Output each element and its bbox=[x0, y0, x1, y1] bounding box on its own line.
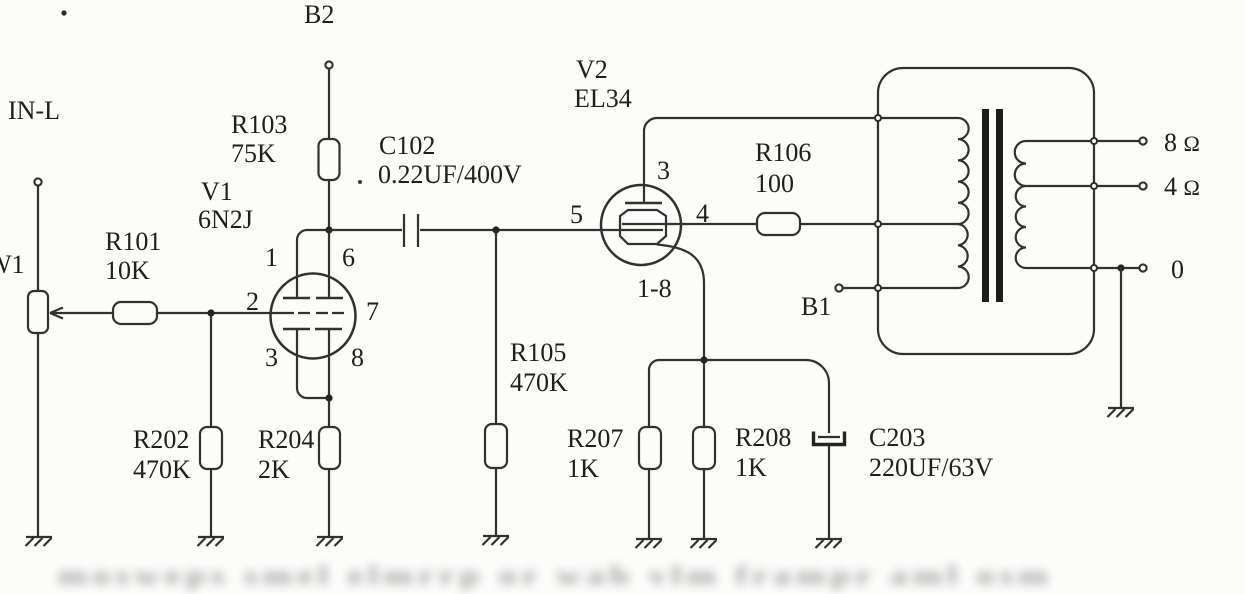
transformer secondary winding bbox=[1015, 141, 1026, 268]
ground (R204 bottom) bbox=[317, 537, 344, 546]
svg-text:0.22UF/400V: 0.22UF/400V bbox=[378, 160, 522, 189]
scan speck top left bbox=[61, 10, 66, 15]
svg-text:470K: 470K bbox=[133, 455, 191, 484]
wire R106 to transformer ultralinear tap bbox=[800, 223, 958, 225]
node A (plate / R103 / C102 junction) bbox=[325, 226, 332, 233]
svg-text:0: 0 bbox=[1171, 255, 1184, 284]
resistor R204 bbox=[319, 427, 340, 469]
wire secondary 8 ohm tap bbox=[1026, 140, 1139, 142]
wire V1 right cathode down through R204 to ground bbox=[328, 329, 330, 537]
ground (R208 bottom) bbox=[691, 539, 718, 548]
svg-text:7: 7 bbox=[366, 297, 379, 326]
node cathode junction pins 3 and 8 bbox=[325, 394, 332, 401]
svg-text:R101: R101 bbox=[105, 227, 161, 256]
junction marker secondary 8 ohm bbox=[1091, 138, 1097, 144]
capacitor C203 cup plate bbox=[814, 432, 845, 445]
wire node to R202 to ground bbox=[210, 313, 212, 537]
junction marker primary bottom bbox=[875, 285, 881, 291]
svg-text:B2: B2 bbox=[304, 0, 334, 29]
svg-text:1-8: 1-8 bbox=[637, 274, 672, 303]
svg-text:3: 3 bbox=[657, 156, 670, 185]
scan speck near C102 bbox=[358, 180, 362, 184]
wire potentiometer bottom to ground bbox=[37, 333, 39, 537]
resistor R106 bbox=[757, 213, 800, 235]
V2 screen grid line to pin 4 bbox=[622, 223, 757, 225]
svg-text:1: 1 bbox=[265, 243, 278, 272]
wire node A to C102 bbox=[329, 229, 402, 231]
resistor R105 bbox=[485, 424, 507, 468]
svg-text:4 Ω: 4 Ω bbox=[1164, 172, 1200, 201]
svg-text:R204: R204 bbox=[258, 425, 314, 454]
terminal 8 ohm bbox=[1139, 137, 1146, 144]
resistor R103 bbox=[319, 139, 340, 180]
svg-text:470K: 470K bbox=[510, 368, 568, 397]
svg-text:3: 3 bbox=[265, 343, 278, 372]
node cathode bus junction bbox=[700, 356, 707, 363]
node (R101 / R202 / grid junction) bbox=[207, 309, 214, 316]
svg-text:100: 100 bbox=[755, 169, 794, 198]
svg-text:V1: V1 bbox=[201, 177, 233, 206]
node (C102 / R105 junction) bbox=[492, 226, 499, 233]
ground (secondary) bbox=[1108, 408, 1135, 417]
svg-text:W1: W1 bbox=[0, 250, 25, 279]
wiper arrow into W1 bbox=[50, 308, 113, 319]
transformer primary winding bbox=[958, 118, 969, 288]
wire C203 to ground bbox=[828, 446, 830, 539]
pentode V2 envelope bbox=[601, 185, 681, 265]
resistor R101 bbox=[113, 302, 157, 324]
svg-text:8: 8 bbox=[351, 343, 364, 372]
junction marker primary top bbox=[875, 115, 881, 121]
wire B1 to primary bottom bbox=[843, 287, 958, 289]
svg-text:V2: V2 bbox=[576, 55, 608, 84]
svg-text:R202: R202 bbox=[133, 425, 189, 454]
V1 right plate bbox=[316, 297, 343, 300]
svg-text:75K: 75K bbox=[231, 139, 276, 168]
wire plate node to V1 pin 6 (right plate) bbox=[328, 230, 330, 298]
svg-text:1K: 1K bbox=[567, 454, 599, 483]
ground (W1 bottom) bbox=[26, 537, 53, 546]
svg-text:C203: C203 bbox=[869, 423, 925, 452]
terminal 4 ohm bbox=[1139, 182, 1146, 189]
V1 right grid dashes bbox=[316, 312, 344, 314]
ground (R202 bottom) bbox=[198, 537, 225, 546]
svg-text:6: 6 bbox=[342, 243, 355, 272]
junction marker primary UL tap bbox=[875, 221, 881, 227]
V1 left plate bbox=[283, 297, 310, 300]
cathode bus from R207 to C203 bbox=[649, 360, 829, 433]
terminal 0 bbox=[1139, 264, 1146, 271]
ground (R105 bottom) bbox=[483, 536, 510, 545]
svg-text:R106: R106 bbox=[755, 138, 811, 167]
page bleed-through band bbox=[58, 561, 1053, 590]
svg-text:B1: B1 bbox=[801, 292, 831, 321]
svg-text:5: 5 bbox=[570, 200, 583, 229]
capacitor C203 (electrolytic) top plate bbox=[818, 436, 840, 438]
svg-text:C102: C102 bbox=[379, 131, 435, 160]
svg-text:R105: R105 bbox=[510, 338, 566, 367]
svg-text:EL34: EL34 bbox=[574, 84, 632, 113]
potentiometer W1 bbox=[28, 291, 48, 333]
wire secondary 4 ohm tap bbox=[1026, 185, 1139, 187]
wire R207 to ground bbox=[648, 469, 650, 539]
output transformer T1 outline bbox=[878, 68, 1094, 354]
capacitor C102 bbox=[403, 214, 405, 247]
svg-text:8 Ω: 8 Ω bbox=[1164, 128, 1200, 157]
svg-text:mosweps smel elmrrp or wab vlm: mosweps smel elmrrp or wab vlm frampr am… bbox=[58, 561, 1053, 590]
V2 plate bar bbox=[625, 202, 662, 205]
wire R101 to node and to V1 grid pin 2 bbox=[157, 312, 294, 314]
svg-text:R207: R207 bbox=[567, 424, 623, 453]
junction marker secondary 0 bbox=[1091, 265, 1097, 271]
V2 beam cage bbox=[620, 210, 666, 244]
wire V2 cathode pins 1-8 down to cathode bus and R208 ground bbox=[657, 245, 704, 540]
wire C102 to V2 grid pin 5 bbox=[420, 229, 663, 231]
svg-text:1K: 1K bbox=[735, 453, 767, 482]
svg-text:IN-L: IN-L bbox=[8, 96, 60, 125]
ground (R207 bottom) bbox=[636, 539, 663, 548]
V1 left cathode bbox=[283, 328, 310, 331]
resistor R207 bbox=[639, 427, 661, 469]
wire V2 plate pin 3 up and right to output transformer primary bbox=[644, 118, 958, 203]
wire V1 left cathode to cathode node bbox=[297, 329, 329, 398]
wire node to R105 to ground bbox=[495, 230, 497, 536]
svg-text:10K: 10K bbox=[105, 256, 150, 285]
resistor R202 bbox=[200, 427, 222, 469]
V1 left grid dash bbox=[298, 312, 310, 314]
V1 right cathode bbox=[315, 328, 342, 331]
junction marker secondary 4 ohm bbox=[1091, 183, 1097, 189]
resistor R208 bbox=[693, 427, 715, 469]
svg-text:2K: 2K bbox=[258, 455, 290, 484]
wire B2 through R103 to plate node bbox=[328, 69, 330, 230]
wire plate node to V1 pin 1 (left plate) bbox=[297, 230, 329, 298]
svg-text:R208: R208 bbox=[735, 423, 791, 452]
transformer core bars bbox=[982, 109, 989, 302]
input terminal bbox=[34, 178, 41, 185]
wire input terminal to potentiometer bbox=[37, 186, 39, 291]
node secondary ground junction bbox=[1117, 264, 1124, 271]
svg-text:4: 4 bbox=[696, 199, 709, 228]
svg-text:R103: R103 bbox=[231, 110, 287, 139]
svg-text:2: 2 bbox=[246, 287, 259, 316]
svg-text:220UF/63V: 220UF/63V bbox=[869, 453, 993, 482]
wire secondary to ground bbox=[1120, 268, 1122, 407]
svg-text:6N2J: 6N2J bbox=[198, 205, 253, 234]
triode V1 envelope bbox=[271, 274, 356, 359]
wire secondary 0 tap bbox=[1026, 267, 1139, 269]
ground (C203 bottom) bbox=[816, 539, 843, 548]
